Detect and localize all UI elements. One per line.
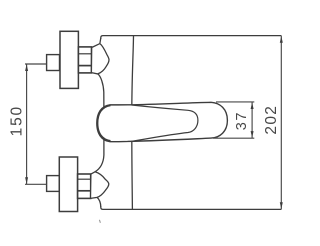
union nut bottom <box>78 174 91 198</box>
dim 37 extension line bottom <box>213 137 254 139</box>
svg-text:37: 37 <box>234 111 250 130</box>
dim 150 arrow bottom <box>25 177 28 184</box>
body column left edge upper segment <box>99 38 102 43</box>
dim 150 dimension line <box>26 64 28 184</box>
dim 202 arrow bottom <box>280 202 283 209</box>
body column left edge middle segment <box>98 74 104 112</box>
dim 37 arrow top <box>251 102 254 109</box>
body column left edge lower segment <box>95 134 104 172</box>
body column right edge <box>132 36 134 210</box>
wall flange bottom <box>59 157 77 212</box>
dim 202 arrow top <box>280 36 283 43</box>
union nut bottom facet line 1 <box>78 178 91 180</box>
body top edge + 202 top extension line <box>101 36 281 39</box>
dome cap top connector <box>91 44 109 74</box>
lever handle left cap inner thickening <box>98 105 111 140</box>
union nut top facet line 1 <box>78 53 91 55</box>
dim 150 extension line top <box>25 63 47 65</box>
supply pipe stub top <box>47 55 60 71</box>
dim 150 extension line bottom <box>25 183 47 185</box>
union nut bottom facet line 2 <box>78 190 91 192</box>
supply pipe stub bottom <box>47 176 60 192</box>
dim 37 arrow bottom <box>251 131 254 138</box>
svg-text:150: 150 <box>8 105 25 136</box>
svg-text:202: 202 <box>263 105 280 135</box>
lever handle outer silhouette <box>97 102 228 141</box>
dim 150 arrow top <box>25 64 28 71</box>
dim 202 dimension line <box>280 36 282 210</box>
print artifact speck <box>99 220 100 223</box>
union nut top <box>78 47 91 73</box>
lever handle inner contour <box>132 105 198 141</box>
union nut top facet line 2 <box>78 65 91 67</box>
dome cap bottom connector <box>91 172 109 199</box>
dim 37 dimension line <box>251 102 253 138</box>
dim 37 extension line top <box>216 101 254 103</box>
wall flange top <box>60 31 78 88</box>
body bottom edge + 202 bottom extension line <box>101 206 281 209</box>
body column left edge bottom segment <box>97 197 101 207</box>
